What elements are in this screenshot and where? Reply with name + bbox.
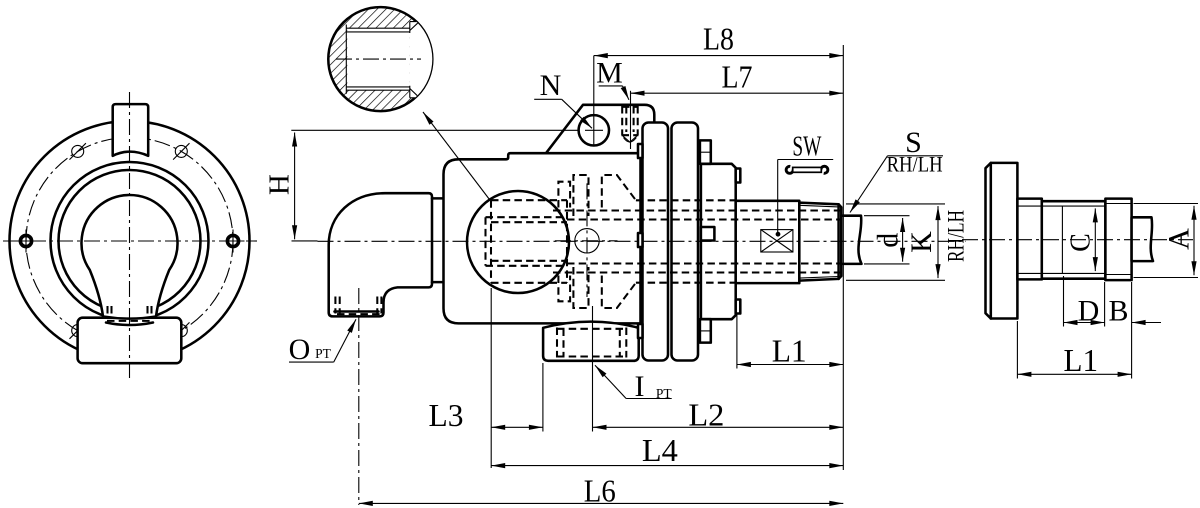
- elbow O-port hidden dash horizontal: [337, 313, 380, 315]
- I-port bottom boss: [543, 322, 639, 361]
- cap right face tabs: [736, 169, 741, 183]
- boss bore hidden double lower: [486, 265, 568, 267]
- L8 extension line / N centerline: [593, 56, 595, 146]
- O-port centerline: [358, 288, 360, 505]
- right end extension line: [842, 45, 844, 470]
- I-port hidden thread dashes: [557, 328, 626, 358]
- rotor flange disc 1: [643, 123, 669, 361]
- bolt hole upper-right: [173, 143, 189, 159]
- dimension L4: [491, 465, 843, 467]
- collar B section: [1105, 199, 1131, 281]
- hex OD hidden lower: [636, 282, 736, 284]
- top lug plate with N port: [546, 105, 654, 153]
- M port hidden thread (top): [622, 106, 638, 135]
- svg-text:L3: L3: [429, 397, 464, 433]
- left view vertical centerline: [129, 92, 131, 380]
- bolt hole upper-left: [70, 143, 86, 159]
- svg-text:RH/LH: RH/LH: [887, 152, 943, 177]
- front face plug circle: [575, 229, 599, 253]
- grease fitting mid: [701, 227, 715, 241]
- elbow O-port hidden thread dashes: [335, 297, 381, 314]
- svg-text:PT: PT: [315, 346, 332, 361]
- svg-text:N: N: [540, 69, 562, 102]
- wrench icon: [786, 166, 828, 173]
- I-port centerline / L2 extension: [592, 306, 594, 432]
- thread section: [1042, 201, 1106, 279]
- svg-text:B: B: [1108, 295, 1128, 328]
- cap bolt top: [700, 140, 711, 163]
- boss bore bottom hidden vertical: [484, 217, 486, 266]
- bore white out: [347, 28, 410, 90]
- detail circle outline: [328, 7, 432, 111]
- clamp disc 2: [672, 123, 699, 361]
- dimension B: [1131, 282, 1133, 379]
- thread runout vertical: [1061, 206, 1063, 273]
- detail leader arrow: [423, 112, 490, 200]
- bolt circle (dash-dot): [26, 138, 233, 345]
- svg-text:L4: L4: [642, 432, 678, 468]
- M port drill cone arc: [624, 138, 637, 143]
- cap bolt bottom: [700, 319, 711, 342]
- front plug centerline vertical: [586, 183, 588, 297]
- svg-text:SW: SW: [792, 130, 821, 162]
- neck hidden thread dashes: [108, 306, 152, 317]
- bearing cap block: [701, 164, 736, 319]
- boss bore hidden double upper: [486, 216, 568, 218]
- outer flange circle: [10, 121, 250, 361]
- hex flat symbol box: [761, 230, 793, 252]
- dimension L8: [594, 55, 844, 57]
- bolt hole right (thick): [222, 230, 245, 253]
- bolt hole left (thick): [15, 230, 38, 253]
- connected pipe stub: [841, 216, 861, 264]
- svg-text:D: D: [1078, 295, 1100, 328]
- nipple flange: [986, 163, 1018, 319]
- dimension D: [1063, 276, 1065, 327]
- svg-text:H: H: [264, 174, 296, 195]
- inner ring circle outer: [51, 162, 209, 320]
- svg-text:A: A: [1162, 228, 1195, 250]
- main centerline: [292, 240, 318, 242]
- N port hole: [579, 115, 609, 145]
- inner ring circle inner: [59, 170, 201, 312]
- hidden line shaft bore upper: [567, 218, 841, 220]
- thread crest line top: [346, 31, 410, 33]
- front plug centerline horizontal: [555, 240, 618, 242]
- keyhole bulb and neck cutout: [82, 195, 178, 319]
- dimension L1 (right view): [1016, 321, 1018, 379]
- thread end face line: [837, 204, 840, 279]
- dimension L2: [593, 426, 844, 428]
- dimension C: [1094, 208, 1096, 271]
- svg-text:O: O: [289, 333, 311, 366]
- svg-text:L7: L7: [722, 59, 753, 95]
- bore end face bar: [345, 25, 347, 94]
- thread crest line bottom: [346, 86, 410, 88]
- svg-text:RH/LH: RH/LH: [944, 210, 969, 262]
- hidden line shaft bore lower: [567, 262, 841, 264]
- L7 extension line / M centerline: [630, 91, 632, 149]
- O-port boss rectangle (bottom): [78, 318, 182, 364]
- chamfer lines collar/thread: [1017, 205, 1105, 207]
- bolt hole lower-right: [173, 322, 189, 338]
- elbow O-port counterbore face line: [335, 310, 379, 313]
- internal passage hidden lines lower: [558, 267, 636, 308]
- neck bottom heavy arc: [106, 323, 153, 326]
- dimension d: [864, 215, 910, 217]
- M port countersink cone: [623, 136, 637, 142]
- disc1 side tabs: [638, 144, 643, 158]
- hidden line thread root upper: [553, 209, 841, 211]
- boss thread face hidden vertical: [490, 200, 492, 283]
- tapered thread section: [799, 203, 841, 281]
- counterbore step verticals: [409, 22, 411, 33]
- housing body block: [444, 153, 641, 323]
- thread root line top: [346, 27, 410, 29]
- dimension L7: [631, 92, 844, 94]
- side port boss circle: [467, 191, 569, 293]
- top boss on flange: [113, 104, 149, 156]
- svg-text:C: C: [1066, 233, 1097, 252]
- svg-text:L6: L6: [584, 473, 616, 508]
- svg-text:K: K: [905, 231, 938, 253]
- boss thread OD hidden upper: [491, 199, 567, 201]
- svg-text:M: M: [596, 57, 623, 90]
- dimension L1 (main): [736, 314, 738, 369]
- dimension L3: [490, 288, 492, 468]
- internal passage hidden lines upper: [558, 175, 636, 216]
- bolt hole lower-left: [70, 322, 86, 338]
- collar section: [1017, 199, 1041, 280]
- svg-text:L8: L8: [703, 21, 734, 57]
- pipe stub right view: [1132, 217, 1153, 261]
- hidden line thread root lower: [553, 271, 841, 273]
- counterbore walls: [410, 21, 434, 23]
- hatch fill: [329, 8, 431, 110]
- left view horizontal centerline: [3, 240, 257, 242]
- dimension L6: [359, 502, 844, 504]
- svg-text:L1: L1: [772, 333, 807, 369]
- flange chamfer edge line: [990, 163, 993, 319]
- boss thread OD hidden lower: [491, 282, 567, 284]
- thread root taper lines: [799, 205, 838, 207]
- hidden lines through body, discs and shaft: [486, 200, 841, 283]
- detail centerline: [336, 58, 421, 60]
- neck hidden horizontal dash: [107, 320, 152, 322]
- hex OD hidden upper: [636, 199, 736, 201]
- chamfer slants: [410, 23, 418, 31]
- counterbore white out: [410, 22, 436, 98]
- right view centerline: [962, 239, 1193, 241]
- elbow body: [329, 193, 432, 316]
- thread root line bottom: [346, 89, 410, 91]
- svg-text:L1: L1: [1064, 342, 1099, 378]
- svg-text:d: d: [871, 233, 904, 248]
- dimension A: [1134, 203, 1199, 205]
- dimension K: [846, 203, 945, 205]
- chamfer lines collar B: [1105, 203, 1131, 205]
- dimension H: [291, 129, 578, 131]
- shaft hex section: [736, 201, 800, 283]
- N hole center tick: [585, 129, 603, 131]
- boss thread end hidden vertical: [566, 200, 568, 283]
- svg-text:L2: L2: [688, 397, 724, 433]
- rotor neck between elbow and housing: [432, 197, 445, 200]
